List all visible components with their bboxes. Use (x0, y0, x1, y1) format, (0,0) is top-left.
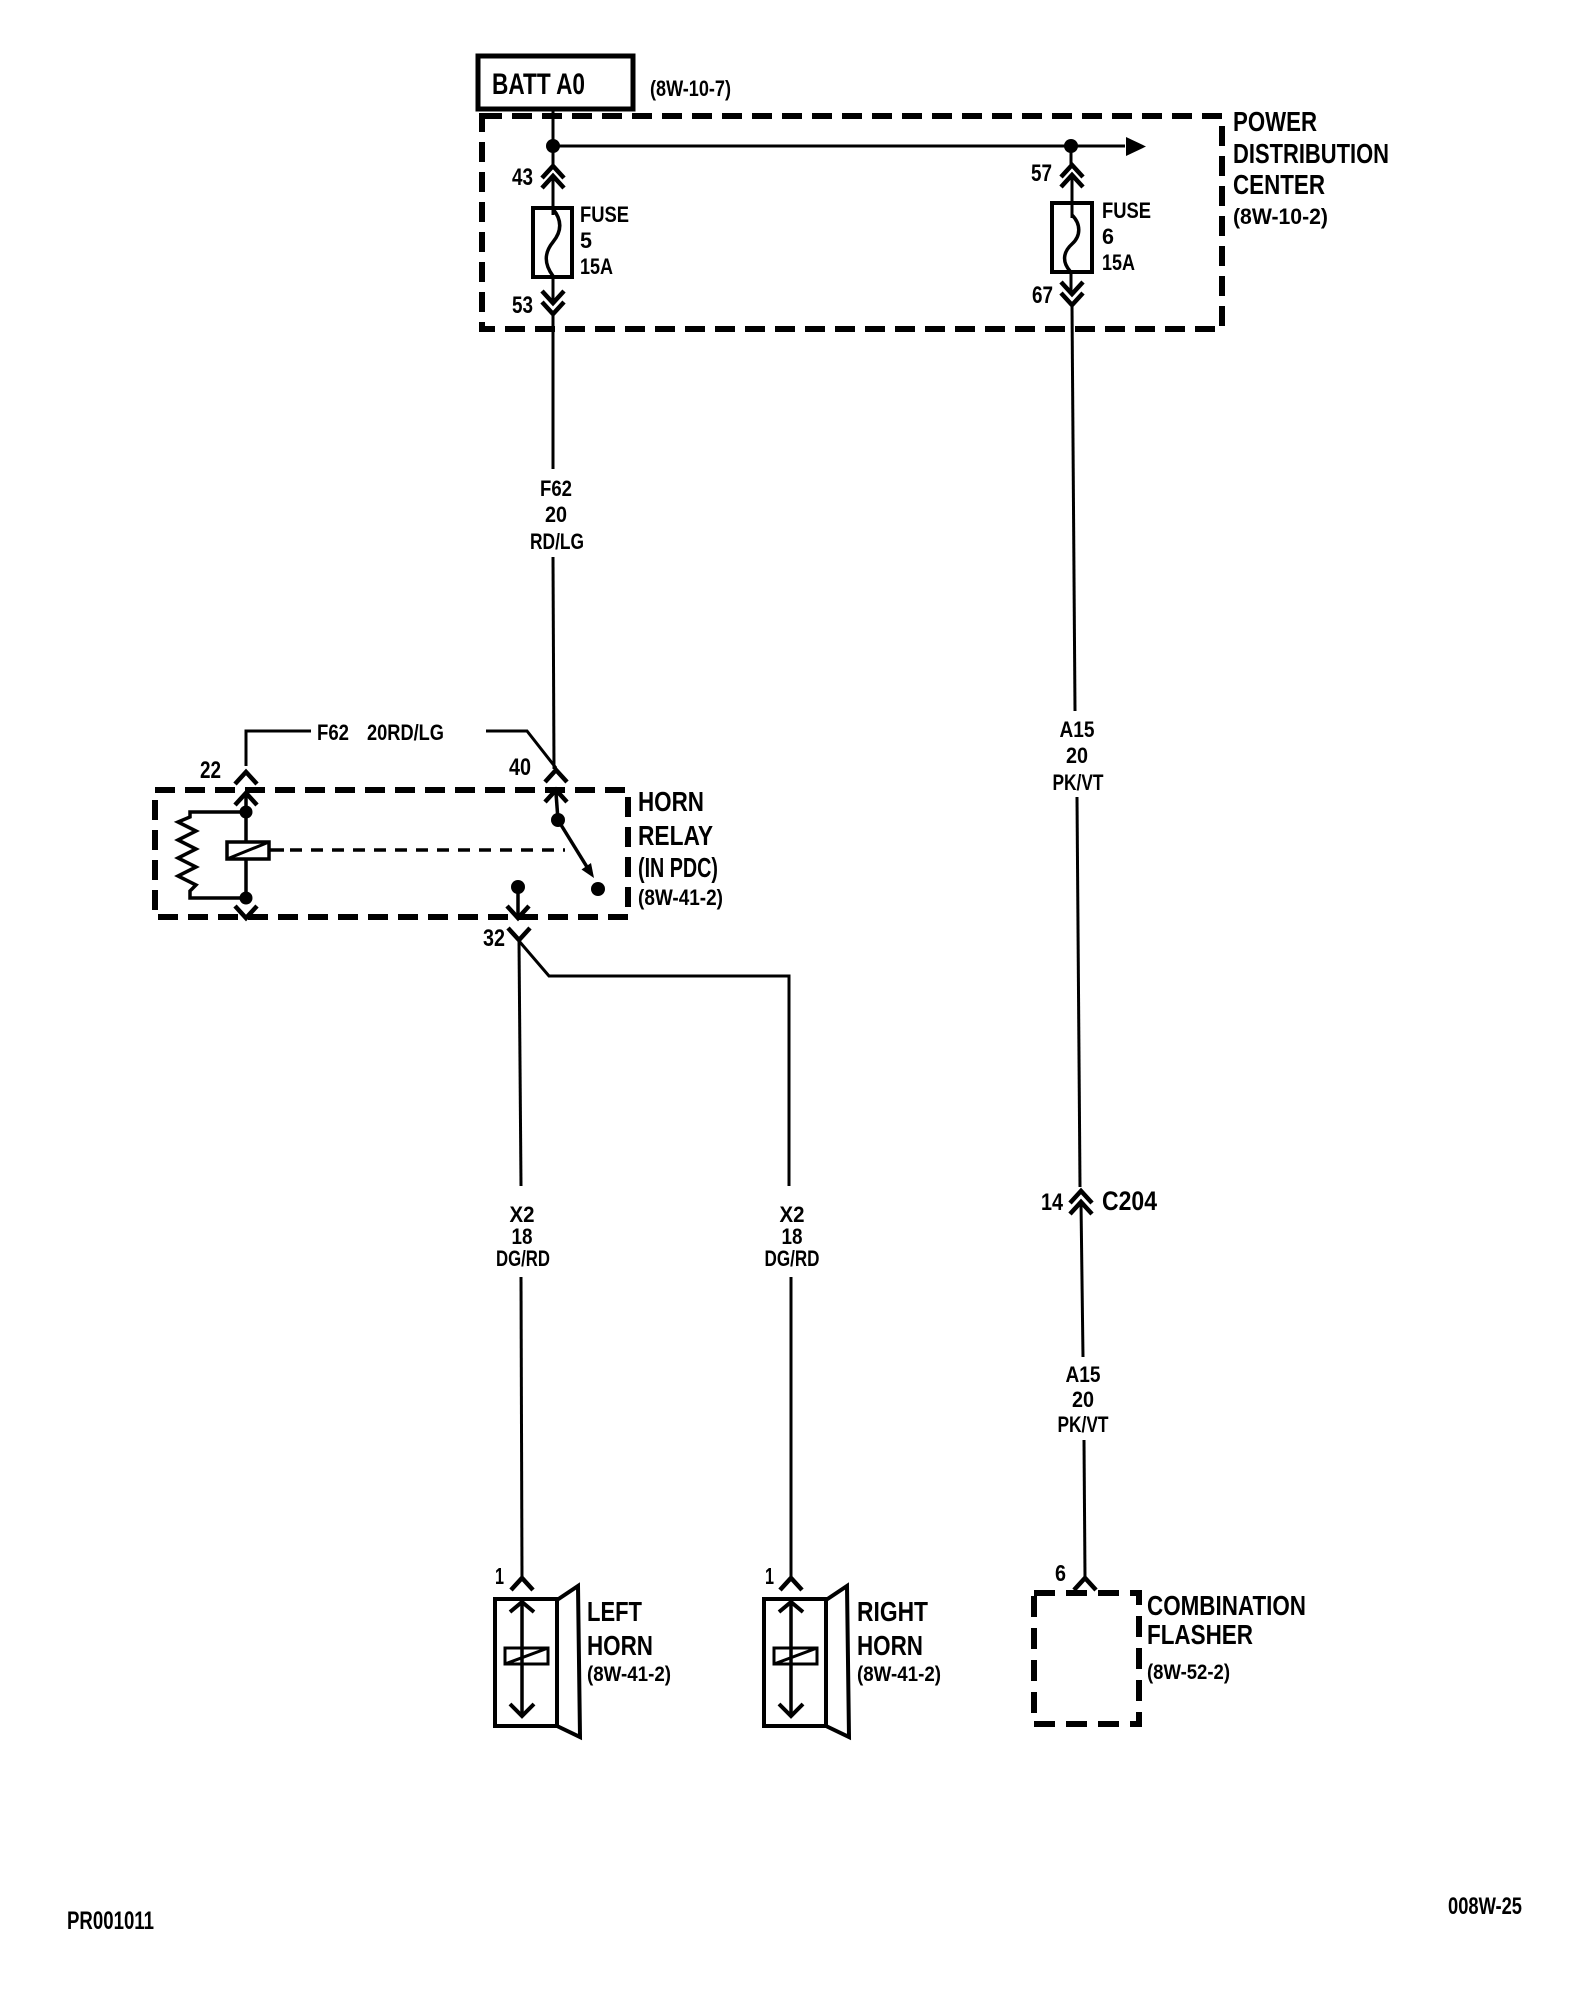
node junction B (1064, 139, 1078, 153)
right horn (764, 1586, 849, 1737)
label FUSE 6 15A (1102, 198, 1151, 275)
svg-text:15A: 15A (1102, 250, 1135, 275)
svg-text:F62: F62 (317, 720, 349, 745)
svg-text:20: 20 (1072, 1387, 1094, 1412)
svg-text:14: 14 (1041, 1189, 1064, 1216)
wire pointer right lead to pin 40 (486, 731, 556, 768)
label POWER DISTRIBUTION CENTER (1233, 106, 1389, 229)
svg-text:PK/VT: PK/VT (1058, 1412, 1109, 1437)
wire A15 mid segment (1077, 797, 1080, 1187)
label wire A15 20 PK/VT lower (1058, 1362, 1109, 1437)
wire pin43 to fuse5 (552, 177, 555, 215)
connector pin 1 right horn (765, 1563, 802, 1590)
svg-text:43: 43 (512, 164, 533, 191)
label wire X2 18 DG/RD right (765, 1202, 820, 1271)
svg-text:DISTRIBUTION: DISTRIBUTION (1233, 138, 1389, 169)
resistor (relay) (178, 812, 246, 898)
node coil bottom junction (240, 892, 253, 905)
label COMBINATION FLASHER (1147, 1590, 1306, 1684)
svg-text:15A: 15A (580, 254, 613, 279)
svg-text:(8W-41-2): (8W-41-2) (638, 885, 723, 910)
connector pin 6 flasher (1055, 1560, 1096, 1590)
wire X2 left vertical (519, 940, 521, 1186)
wire below C204 (1081, 1203, 1083, 1357)
wire to flasher (1084, 1440, 1085, 1578)
wire coil actuation dashed (269, 848, 565, 852)
label wire X2 18 DG/RD left (496, 1202, 550, 1271)
wire coil bottom (244, 859, 248, 898)
wire junction B to pin 57 (1070, 146, 1073, 166)
wire pin 22 into relay (244, 796, 248, 842)
svg-text:CENTER: CENTER (1233, 169, 1325, 200)
fuse F6 15A (1052, 203, 1092, 272)
svg-text:PR001011: PR001011 (67, 1907, 154, 1935)
svg-text:20: 20 (545, 502, 567, 527)
label HORN RELAY (IN PDC) (638, 786, 723, 910)
svg-text:40: 40 (509, 754, 531, 781)
svg-text:008W-25: 008W-25 (1448, 1893, 1522, 1920)
connector pin 43 (512, 164, 564, 191)
svg-text:COMBINATION: COMBINATION (1147, 1590, 1306, 1621)
node junction A (546, 139, 560, 153)
node coil top junction (240, 806, 253, 819)
wire F62 lower segment (553, 557, 554, 769)
svg-text:POWER: POWER (1233, 106, 1317, 137)
svg-text:DG/RD: DG/RD (765, 1246, 820, 1271)
connector pin 53 (512, 291, 564, 319)
connector pin 40 (509, 754, 567, 802)
connector pin 1 left horn (495, 1563, 533, 1590)
svg-text:C204: C204 (1102, 1186, 1157, 1216)
svg-text:(8W-10-7): (8W-10-7) (650, 76, 731, 101)
svg-text:FUSE: FUSE (580, 202, 629, 227)
svg-text:(IN PDC): (IN PDC) (638, 852, 718, 883)
wire pointer left lead to pin 22 (246, 731, 311, 766)
svg-text:20: 20 (1066, 743, 1088, 768)
wire left horn feed (521, 1277, 522, 1579)
svg-text:RELAY: RELAY (638, 820, 713, 851)
svg-text:BATT A0: BATT A0 (492, 68, 585, 101)
svg-text:HORN: HORN (587, 1630, 653, 1661)
wire arrow continuation (1126, 137, 1146, 156)
power distribution center box (482, 116, 1222, 329)
connector pin 67 (1032, 282, 1083, 309)
label wire A15 20 PK/VT upper (1053, 717, 1104, 795)
wire F62 upper segment (552, 314, 555, 469)
svg-text:RIGHT: RIGHT (857, 1596, 928, 1627)
svg-text:1: 1 (495, 1563, 504, 1589)
wire fuse5 to pin 53 (552, 277, 555, 302)
svg-text:DG/RD: DG/RD (496, 1246, 550, 1271)
svg-text:6: 6 (1102, 224, 1114, 249)
node switch common (551, 813, 565, 827)
wire X2 branch diagonal (519, 941, 789, 1186)
left horn (495, 1586, 580, 1737)
svg-text:F62: F62 (540, 476, 572, 501)
horn relay box (155, 790, 628, 917)
connector coil bottom chevron (235, 906, 257, 918)
wire fuse6 to pin 67 (1070, 272, 1073, 293)
svg-text:67: 67 (1032, 282, 1053, 309)
node BATT A0 (478, 56, 633, 109)
relay coil (227, 842, 269, 859)
svg-text:RD/LG: RD/LG (530, 529, 584, 554)
svg-text:22: 22 (200, 757, 221, 784)
svg-text:HORN: HORN (638, 786, 704, 817)
label F62 20RD/LG pointer (317, 720, 444, 745)
svg-text:A15: A15 (1066, 1362, 1101, 1387)
svg-text:A15: A15 (1060, 717, 1095, 742)
label wire F62 20 RD/LG (530, 476, 584, 554)
svg-text:FLASHER: FLASHER (1147, 1619, 1253, 1650)
svg-text:1: 1 (765, 1563, 774, 1589)
svg-text:FUSE: FUSE (1102, 198, 1151, 223)
svg-text:PK/VT: PK/VT (1053, 770, 1104, 795)
wire A15 upper segment (1072, 305, 1075, 711)
label FUSE 5 15A (580, 202, 629, 279)
svg-text:53: 53 (512, 292, 533, 319)
wire pin 40 into relay (556, 793, 558, 820)
connector pin 57 (1031, 160, 1083, 187)
svg-text:(8W-52-2): (8W-52-2) (1147, 1661, 1230, 1684)
svg-text:57: 57 (1031, 160, 1052, 187)
svg-text:32: 32 (483, 925, 505, 952)
svg-text:(8W-41-2): (8W-41-2) (587, 1663, 671, 1686)
wire bus A0 horizontal (553, 145, 1125, 148)
wire right horn feed (790, 1277, 793, 1579)
node switch NO contact (591, 882, 605, 896)
svg-text:HORN: HORN (857, 1630, 923, 1661)
connector C204 pin 14 (1041, 1186, 1157, 1216)
fuse F5 15A (533, 208, 572, 277)
svg-text:LEFT: LEFT (587, 1596, 642, 1627)
svg-text:6: 6 (1055, 1560, 1066, 1586)
switch arm (558, 820, 594, 878)
svg-text:20RD/LG: 20RD/LG (367, 720, 444, 745)
combination flasher box (1034, 1593, 1139, 1724)
label LEFT HORN (587, 1596, 671, 1686)
wire pin32 stub (516, 887, 520, 915)
svg-text:(8W-41-2): (8W-41-2) (857, 1663, 941, 1686)
connector pin 22 (200, 757, 257, 805)
wire BATT to junction (552, 109, 555, 167)
svg-text:(8W-10-2): (8W-10-2) (1233, 204, 1328, 229)
label RIGHT HORN (857, 1596, 941, 1686)
node pin 32 contact (511, 880, 525, 894)
connector pin 32 (483, 906, 530, 952)
svg-text:5: 5 (580, 228, 592, 253)
wire pin57 to fuse6 (1071, 176, 1074, 218)
